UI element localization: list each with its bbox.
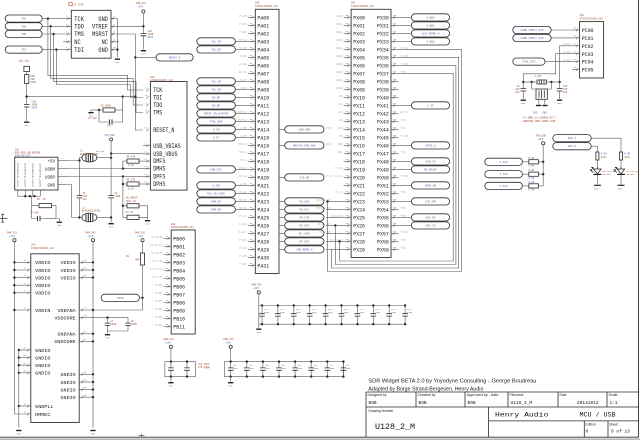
svg-text:SSC_RX_FS: SSC_RX_FS: [151, 251, 163, 254]
svg-text:PB11: PB11: [173, 324, 185, 331]
frame bottom border: [0, 436, 639, 438]
svg-text:SSC_RX_DA: SSC_RX_DA: [151, 235, 163, 238]
svg-text:MOSI_A: MOSI_A: [239, 142, 247, 145]
net flag BC_SCK: [285, 222, 324, 229]
svg-text:VDDIO: VDDIO: [35, 283, 50, 289]
svg-text:PX16: PX16: [353, 143, 365, 150]
svg-text:GND: GND: [17, 432, 22, 435]
wire SW_DN to PA11: [235, 104, 247, 106]
svg-text:NWE0: NWE0: [338, 142, 344, 145]
svg-text:R5 27R: R5 27R: [127, 179, 136, 182]
svg-text:CAL_IN: CAL_IN: [211, 40, 221, 43]
svg-text:GND: GND: [48, 182, 56, 188]
ground shield: [57, 222, 62, 227]
svg-text:POT_IN: POT_IN: [239, 38, 247, 41]
svg-text:C0G: C0G: [515, 91, 520, 94]
svg-text:PA08: PA08: [257, 79, 269, 86]
svg-text:TP44: TP44: [401, 126, 407, 129]
resistor R4 DMFS: [123, 159, 143, 169]
svg-text:PA10: PA10: [257, 95, 269, 102]
svg-text:X_ID: X_ID: [427, 104, 434, 107]
capacitor C12 decoupling: [275, 304, 281, 325]
title block table: [366, 392, 639, 437]
power symbol VBUS_5V0: [536, 134, 546, 144]
net flag SA_SCL: [285, 206, 324, 213]
svg-text:BSB: BSB: [419, 400, 427, 406]
pin 4 USB: [58, 184, 66, 186]
svg-text:1:1: 1:1: [610, 400, 618, 406]
svg-text:Approved by - date: Approved by - date: [467, 393, 499, 397]
net flag X_SW1: [411, 22, 449, 29]
svg-text:PX05: PX05: [353, 55, 365, 62]
net flag LCD_INP: [411, 198, 449, 205]
wire SPDIF_IN_BUFFER to PA12: [235, 112, 247, 114]
svg-text:0603: 0603: [31, 81, 37, 84]
svg-text:TP_X36: TP_X36: [401, 62, 409, 65]
ground core caps: [105, 335, 110, 340]
capacitor C28 decoupling: [341, 360, 347, 377]
svg-text:TCK: TCK: [153, 87, 162, 94]
svg-text:GNDIO: GNDIO: [61, 395, 76, 401]
svg-text:SPDIF_IN_BUFFER: SPDIF_IN_BUFFER: [204, 112, 229, 115]
svg-text:SA_SDA: SA_SDA: [300, 200, 310, 203]
net flag CARD_DTECT_5V0: [513, 34, 551, 41]
svg-text:USBSHLD0: USBSHLD0: [17, 164, 19, 188]
ground left rail: [16, 431, 21, 436]
svg-text:GND: GND: [57, 224, 62, 227]
svg-text:MCU / USB: MCU / USB: [580, 412, 616, 419]
capacitor C7 VDDCORE: [105, 318, 111, 331]
wire VOL_UP to PA08: [235, 80, 247, 82]
svg-text:USB_ID: USB_ID: [426, 160, 436, 163]
svg-text:TP_X34: TP_X34: [401, 46, 409, 49]
net flag USB_DTC: [197, 166, 236, 173]
svg-text:PX54: PX54: [377, 207, 389, 214]
svg-text:PA17: PA17: [257, 151, 269, 158]
svg-text:VDDIO: VDDIO: [35, 275, 50, 281]
svg-text:DPFS: DPFS: [153, 174, 166, 181]
svg-text:GND: GND: [257, 331, 262, 334]
ground LED1: [618, 184, 625, 186]
svg-text:100N: 100N: [233, 367, 239, 370]
svg-text:X_OS1: X_OS1: [535, 75, 543, 78]
svg-text:PX13: PX13: [353, 119, 365, 126]
svg-text:PC02: PC02: [582, 43, 594, 50]
svg-text:TP_X35: TP_X35: [401, 54, 409, 57]
svg-text:PB08: PB08: [173, 300, 185, 307]
svg-text:RESET_N: RESET_N: [153, 127, 175, 134]
op-block U1D MCU JTAG/USB: [147, 82, 187, 191]
ground USB: [109, 224, 114, 229]
wire LED1 feed: [591, 138, 621, 152]
pin 2 USB: [58, 168, 66, 170]
wire bias branch: [122, 184, 124, 217]
wire PC01: [551, 37, 572, 39]
port flag TMS: [5, 30, 42, 37]
svg-text:USBM: USBM: [45, 166, 55, 172]
svg-text:PB06: PB06: [173, 284, 185, 291]
svg-text:PX44: PX44: [377, 127, 389, 134]
power symbol PWR_1V8 bank B: [224, 338, 234, 348]
svg-text:TP_A29: TP_A29: [239, 246, 247, 249]
svg-text:100N: 100N: [264, 311, 270, 314]
wire NTC_AD_CONV to PA22: [235, 192, 247, 194]
svg-text:DATA9: DATA9: [336, 86, 343, 89]
ground RC: [88, 113, 93, 118]
svg-text:BLM18SG221TN1: BLM18SG221TN1: [80, 153, 99, 156]
svg-text:AUX_DS: AUX_DS: [426, 216, 436, 219]
svg-text:100N: 100N: [312, 311, 318, 314]
svg-text:PA07: PA07: [257, 71, 269, 78]
svg-text:BSB: BSB: [369, 400, 377, 406]
svg-text:PWR_3V3: PWR_3V3: [252, 284, 262, 287]
svg-text:TP47: TP47: [401, 150, 407, 153]
svg-text:PA02: PA02: [257, 31, 269, 38]
wire PC03 crystal: [523, 54, 572, 82]
svg-text:100N: 100N: [360, 311, 366, 314]
svg-text:PX15: PX15: [353, 135, 365, 142]
svg-text:+3V3: +3V3: [137, 235, 143, 238]
svg-text:GNDIO: GNDIO: [61, 372, 76, 378]
capacitor C11 decoupling: [259, 304, 265, 325]
svg-text:PX24: PX24: [353, 207, 365, 214]
svg-text:NTC_AD_CONV: NTC_AD_CONV: [207, 192, 225, 195]
svg-text:AT32UC3A3256_144: AT32UC3A3256_144: [351, 5, 374, 8]
svg-text:PWR_3V3: PWR_3V3: [135, 231, 145, 234]
resistor R1 pullup: [25, 75, 29, 84]
svg-text:GNDPLL: GNDPLL: [35, 404, 53, 410]
svg-text:0.5W: 0.5W: [529, 164, 535, 167]
svg-text:TP_B09: TP_B09: [155, 307, 163, 310]
svg-text:R4 27R: R4 27R: [127, 155, 136, 158]
wire PA29 to flag LED_PWM0_A: [279, 248, 285, 250]
wire VTREF vertical: [142, 14, 144, 32]
svg-text:PA00: PA00: [257, 15, 269, 22]
svg-text:PX12: PX12: [353, 111, 365, 118]
svg-text:9 of 13: 9 of 13: [611, 429, 630, 435]
net flag CAL_OF: [197, 46, 236, 53]
svg-text:PX08: PX08: [353, 79, 365, 86]
svg-text:GND: GND: [115, 61, 120, 64]
svg-text:5V0_USB: 5V0_USB: [105, 134, 115, 137]
svg-text:100N: 100N: [249, 367, 255, 370]
svg-text:PB01: PB01: [173, 244, 185, 251]
svg-text:GND: GND: [91, 432, 96, 435]
wire shield to ground: [56, 219, 59, 222]
wire L1 to VBUS node: [97, 157, 111, 159]
wire PX56 to ADC_CS: [399, 224, 412, 226]
wire reset RC left to ground: [90, 110, 92, 112]
wire DP net: [66, 176, 123, 178]
svg-text:AT32UC3A3256_144: AT32UC3A3256_144: [580, 17, 603, 20]
net flag WM8741_POW_DAC: [285, 142, 324, 149]
svg-text:PA05: PA05: [257, 55, 269, 62]
svg-text:PA01: PA01: [257, 23, 269, 30]
wire bank A rails: [259, 295, 405, 325]
svg-text:USB_DT: USB_DT: [239, 166, 247, 169]
svg-text:100N: 100N: [346, 367, 352, 370]
svg-text:XTAL_OSC: XTAL_OSC: [522, 61, 535, 64]
svg-text:PB04: PB04: [173, 268, 185, 275]
svg-text:PWR_ON: PWR_ON: [239, 206, 247, 209]
capacitor C27 decoupling: [325, 360, 331, 377]
svg-text:WM_SCK_3V3: WM_SCK_3V3: [318, 222, 331, 225]
svg-text:DAC_P: DAC_P: [326, 142, 333, 145]
net flag PWR_ON: [197, 206, 236, 213]
svg-text:SPDIF_0: SPDIF_0: [238, 118, 248, 121]
svg-text:PX06: PX06: [353, 63, 365, 70]
connector J1 JTAG header: [66, 10, 117, 58]
svg-text:PX49: PX49: [377, 167, 389, 174]
svg-text:TP_B11: TP_B11: [155, 323, 163, 326]
wire loop net PX34: [328, 49, 462, 271]
wire PX31 to X_SW1: [399, 24, 412, 26]
wire R13 to LED2: [596, 160, 598, 167]
power symbol PWR_3V3 bank A: [252, 284, 262, 294]
svg-text:PWR_3V3: PWR_3V3: [224, 338, 234, 341]
ground right rail: [90, 431, 95, 436]
svg-text:USB_VBUS: USB_VBUS: [153, 151, 178, 158]
svg-text:PWR_OF: PWR_OF: [239, 198, 247, 201]
resistor R7 pulldown: [122, 205, 148, 220]
svg-text:2K21: 2K21: [601, 156, 607, 159]
svg-text:SSC_TX_DA: SSC_TX_DA: [151, 259, 163, 262]
net flag 3V3A: [101, 294, 139, 301]
wire loop net PX36: [335, 65, 456, 264]
wire DM net: [66, 168, 123, 170]
svg-text:+3V3: +3V3: [88, 235, 94, 238]
svg-text:SA_SCL: SA_SCL: [300, 208, 310, 211]
wire X_OT to PA15: [235, 136, 247, 138]
svg-text:TP_B10: TP_B10: [155, 315, 163, 318]
svg-text:BC_SCK: BC_SCK: [300, 224, 310, 227]
svg-text:PX56: PX56: [377, 223, 389, 230]
svg-text:WM_MISO_3V3: WM_MISO_3V3: [317, 206, 332, 209]
svg-text:TDO: TDO: [74, 24, 84, 31]
wire PC02 crystal: [560, 46, 572, 82]
svg-text:X_SW2: X_SW2: [426, 40, 435, 43]
wire reset pull line: [25, 96, 135, 98]
svg-text:R2 100K: R2 100K: [101, 105, 111, 108]
capacitor C4 shield: [32, 206, 56, 222]
capacitor C18 decoupling: [371, 304, 377, 325]
svg-text:PA25: PA25: [257, 215, 269, 222]
svg-text:+3V3: +3V3: [9, 235, 15, 238]
svg-text:20141012: 20141012: [577, 400, 599, 406]
svg-text:TDI: TDI: [21, 49, 26, 52]
svg-text:100N: 100N: [297, 367, 303, 370]
svg-text:100N: 100N: [344, 311, 350, 314]
power symbol PWR_3V3 left: [7, 231, 17, 241]
net flag XTAL_BUF: [197, 118, 236, 125]
capacitor C29 decoupling: [168, 360, 174, 377]
svg-text:DATA7: DATA7: [336, 70, 343, 73]
svg-text:PX10: PX10: [353, 95, 365, 102]
svg-text:PA24: PA24: [257, 207, 269, 214]
svg-text:3V3A: 3V3A: [117, 297, 124, 300]
svg-text:PX35: PX35: [377, 55, 389, 62]
svg-text:PA29: PA29: [257, 247, 269, 254]
wire USB ground branch: [66, 185, 82, 218]
svg-text:TP_A02: TP_A02: [239, 30, 247, 33]
svg-text:+3V3: +3V3: [138, 6, 144, 9]
svg-text:VDDANA: VDDANA: [58, 308, 76, 314]
svg-text:LED_TEMPO_A: LED_TEMPO_A: [422, 32, 440, 35]
svg-text:TP_A01: TP_A01: [239, 22, 247, 25]
svg-text:GNDCORE: GNDCORE: [54, 339, 75, 345]
power symbol 5V0_USB: [105, 134, 115, 141]
net flag NTC_AD_CONV: [197, 190, 236, 197]
svg-text:PX47: PX47: [377, 151, 389, 158]
svg-text:VDDIO: VDDIO: [61, 260, 76, 266]
svg-text:PX46: PX46: [377, 143, 389, 150]
svg-text:PA03: PA03: [257, 39, 269, 46]
svg-text:WM_MOSI_3V3: WM_MOSI_3V3: [317, 198, 332, 201]
svg-text:100N: 100N: [296, 311, 302, 314]
svg-text:VDDIO: VDDIO: [35, 260, 50, 266]
svg-text:PX40: PX40: [377, 95, 389, 102]
svg-text:PX31: PX31: [377, 23, 389, 30]
svg-text:PA23: PA23: [257, 199, 269, 206]
svg-text:U128_2_M: U128_2_M: [375, 423, 415, 432]
wire R14 to LED1: [620, 160, 622, 167]
net flag VOL_DN: [197, 86, 236, 93]
wire VDDANA: [79, 309, 142, 311]
ground C10: [557, 100, 562, 105]
svg-text:TP_A30: TP_A30: [239, 254, 247, 257]
svg-text:ADC_CS: ADC_CS: [426, 224, 436, 227]
ground JTAG: [115, 59, 120, 64]
svg-text:PA21: PA21: [257, 183, 269, 190]
svg-text:I2S_CK: I2S_CK: [335, 174, 343, 177]
net flag DA_LRCK: [285, 230, 324, 237]
pin 3 USB: [58, 176, 66, 178]
svg-text:PX03: PX03: [353, 39, 365, 46]
svg-text:0R5: 0R5: [135, 258, 140, 261]
pin numbers PX: [346, 14, 397, 249]
svg-text:R_0R: R_0R: [529, 181, 535, 184]
svg-text:R_0R: R_0R: [529, 157, 535, 160]
net flag PWR_OF: [197, 198, 236, 205]
net flag HP_SHUNT: [411, 166, 449, 173]
wire VDDCORE: [79, 317, 128, 319]
net flag T_5V0: [485, 171, 523, 178]
svg-text:GND: GND: [98, 47, 108, 54]
svg-text:DATA0: DATA0: [336, 14, 343, 17]
net flag A_5V0: [485, 182, 523, 189]
svg-text:NWE1: NWE1: [338, 150, 344, 153]
wire JTAG GND pins to ground: [111, 19, 117, 58]
svg-text:AT32UC3A3256_144: AT32UC3A3256_144: [171, 226, 194, 229]
svg-text:100N: 100N: [131, 323, 137, 326]
svg-text:PWR_1V8: PWR_1V8: [164, 338, 174, 341]
svg-text:PX51: PX51: [377, 183, 389, 190]
svg-text:I2S_NO: I2S_NO: [300, 176, 310, 179]
svg-text:DA_LRCK: DA_LRCK: [299, 232, 311, 235]
capacitor C10 load: [557, 82, 563, 99]
wire PA16 to flag WM8741_POW_DAC: [279, 144, 285, 146]
svg-text:PA16: PA16: [257, 143, 269, 150]
svg-text:MSRST: MSRST: [92, 31, 108, 38]
svg-text:TDO: TDO: [153, 102, 162, 109]
resistor R6 VBIAS: [123, 204, 148, 218]
wire bank C box: [165, 349, 196, 377]
wire loop net PX35: [331, 57, 458, 268]
svg-text:PWR_ON: PWR_ON: [211, 208, 221, 211]
svg-text:VDDIN: VDDIN: [35, 308, 50, 314]
capacitor C3 reset RC: [99, 97, 123, 125]
svg-text:6K81 1%: 6K81 1%: [126, 200, 136, 203]
svg-text:0.5W: 0.5W: [529, 177, 535, 180]
svg-text:PX00: PX00: [353, 15, 365, 22]
svg-text:PX32: PX32: [377, 31, 389, 38]
svg-text:PC05: PC05: [582, 67, 594, 74]
svg-text:TP54: TP54: [401, 206, 407, 209]
svg-text:PB10: PB10: [173, 316, 185, 323]
wire NC right stub: [111, 41, 119, 43]
svg-text:PX21: PX21: [353, 183, 365, 190]
svg-text:TDI: TDI: [153, 95, 162, 102]
svg-text:PB02: PB02: [173, 252, 185, 259]
ground bank A: [256, 324, 261, 334]
svg-text:AD_SDA: AD_SDA: [239, 62, 247, 65]
net flag XTAL_OSC: [513, 58, 545, 65]
svg-text:TP_X19: TP_X19: [335, 166, 343, 169]
svg-text:VDDIO: VDDIO: [61, 268, 76, 274]
svg-text:A_5V0: A_5V0: [500, 185, 509, 188]
svg-text:0.1%: 0.1%: [128, 187, 134, 190]
svg-text:C0G: C0G: [563, 91, 568, 94]
svg-text:SW_DN: SW_DN: [240, 86, 247, 89]
LED LED1: [614, 167, 625, 177]
svg-text:PX53: PX53: [377, 199, 389, 206]
svg-text:R7 1K: R7 1K: [126, 211, 134, 214]
capacitor C19 decoupling: [386, 304, 392, 325]
svg-text:PX17: PX17: [353, 151, 365, 158]
svg-text:100N: 100N: [407, 311, 413, 314]
net flag AD_CS0: [285, 214, 324, 221]
net flag A_IN5: [197, 182, 236, 189]
wire USB_DTC to PA19: [235, 168, 247, 170]
ground bank B: [228, 377, 233, 388]
svg-text:PX01: PX01: [353, 23, 365, 30]
svg-text:NCS0: NCS0: [338, 126, 344, 129]
net labels PB: [150, 235, 163, 326]
op-block U1F MCU PC port: [572, 22, 604, 78]
net flag SPDIF_IN_BUFFER: [197, 110, 236, 117]
svg-text:PA20: PA20: [257, 175, 269, 182]
power symbol PWR_3V3 ana: [135, 231, 145, 241]
svg-text:GND: GND: [146, 223, 151, 226]
svg-text:GND: GND: [594, 187, 599, 190]
svg-text:PX43: PX43: [377, 119, 389, 126]
net flag NPCS_0: [411, 142, 449, 149]
svg-text:NTC_AD: NTC_AD: [239, 190, 247, 193]
svg-text:GNDIO: GNDIO: [61, 387, 76, 393]
svg-text:Drawing Number: Drawing Number: [369, 409, 395, 413]
wire PA14 to flag USB_POW: [279, 128, 285, 130]
ground crystal case 2: [542, 105, 547, 107]
svg-text:PA22: PA22: [257, 191, 269, 198]
svg-text:PX26: PX26: [353, 223, 365, 230]
svg-text:R_0R: R_0R: [529, 169, 535, 172]
svg-text:AB_PX1: AB_PX1: [401, 110, 409, 113]
wire C2 to ground: [26, 109, 28, 122]
wire PX48 to USB_ID: [399, 160, 412, 162]
svg-text:TP_A00: TP_A00: [239, 14, 247, 17]
capacitor C30 decoupling: [184, 360, 190, 377]
svg-text:DMFS: DMFS: [153, 158, 166, 165]
